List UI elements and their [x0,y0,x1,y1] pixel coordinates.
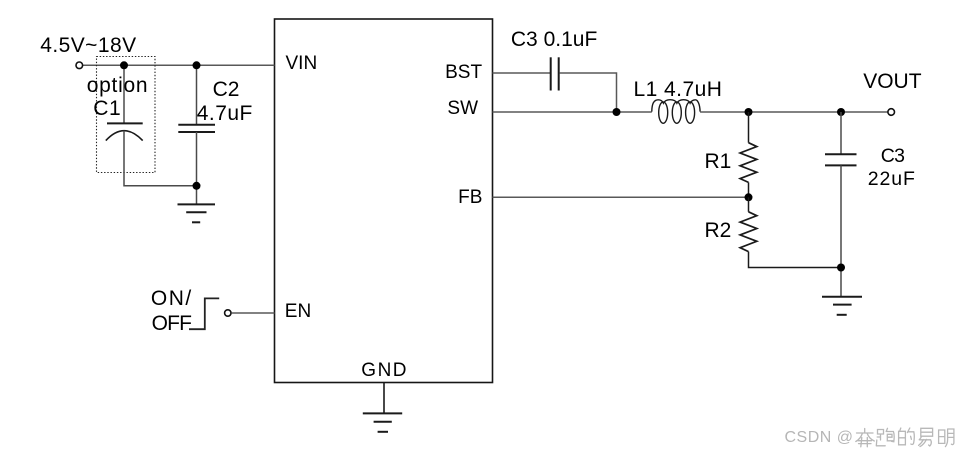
ground G1 [178,203,216,205]
char pao [876,428,894,446]
node L1/R1 junction [745,108,753,116]
node C1/C2 bottom junction [193,182,201,190]
node BST/SW junction [613,108,621,116]
pin label BST [445,63,482,82]
pin label FB [458,188,482,207]
node FB junction [745,193,753,201]
label 22uF [868,170,916,190]
label option [87,75,148,96]
wire SW [493,111,652,113]
label R1 [705,151,732,172]
wire GND stem [383,383,385,414]
label C3 0.1uF [511,29,597,50]
label L1 4.7uH [634,79,723,100]
ground G2 [363,412,402,414]
wire R2 top lead [748,197,750,212]
label 4.5V~18V [40,35,136,56]
inductor L1 [652,100,700,124]
EN terminal [225,310,231,316]
label 4.7uF [197,103,253,124]
char ming [939,429,954,447]
wire BST [493,72,551,74]
pin label SW [447,99,478,118]
pin label GND [361,361,408,380]
node output ground junction [837,264,845,272]
label C3 out [881,147,905,167]
char de [899,428,915,445]
label VOUT [863,71,921,92]
label OFF [152,313,192,334]
label ON/ [151,288,193,309]
char ben [856,429,875,447]
IC U1 main block [275,19,493,383]
watermark text [785,430,854,446]
label C2 [213,79,240,100]
ground G3 [822,296,862,298]
node VIN junction at C1 [120,61,128,69]
resistor R1 [740,143,757,183]
watermark CJK glyphs [856,428,954,447]
capacitor C2 [178,124,215,126]
node output cap junction [837,108,845,116]
wire C2 top lead [196,65,198,124]
wire BST to SW [559,73,616,112]
ON/OFF step symbol [189,298,219,329]
wire C1 bottom lead [124,131,197,186]
capacitor C1 (polarized) [107,122,143,124]
wire SW output [700,111,888,113]
node VIN junction at C2 [193,61,201,69]
wire C2 bottom lead [196,132,198,204]
input terminal [76,62,83,69]
wire EN [231,312,274,314]
wire C1 top lead [123,65,125,123]
VOUT terminal [888,109,895,116]
wire output cap top lead [840,112,842,154]
capacitor C3 bootstrap [550,57,552,90]
char yi [919,428,933,446]
wire FB [493,196,749,198]
capacitor C3 output [825,153,857,155]
resistor R2 [740,212,757,252]
wire R1 top lead [748,112,750,143]
wire output cap bottom lead [840,165,842,296]
wire R2 bottom lead [749,252,842,268]
label R2 [705,220,732,241]
wire R1 bottom lead [748,182,750,197]
pin label VIN [286,54,318,73]
wire VIN input [83,64,275,66]
pin label EN [285,302,311,321]
dashed option box [97,57,156,173]
label C1 [93,98,121,119]
